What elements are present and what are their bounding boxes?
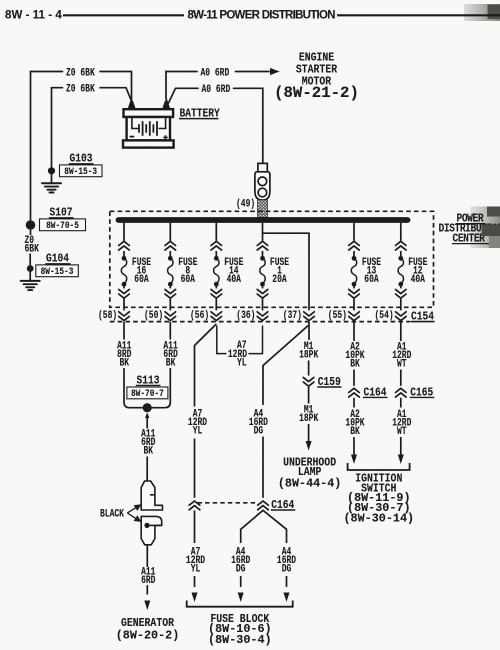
wire A7 to fuse block [194, 510, 196, 543]
wire [308, 361, 310, 376]
arrow into splice from below [145, 412, 149, 418]
svg-text:(8W-20-2): (8W-20-2) [116, 628, 180, 642]
wire [400, 398, 402, 408]
wire label A7 12RD YL [186, 545, 205, 575]
bracket ignition switch [348, 463, 410, 470]
wire to generator [146, 545, 148, 567]
wire A4 split into two branches [241, 510, 287, 543]
fuse F16 60A column [119, 223, 152, 321]
junction chevrons cavity 37 [304, 312, 315, 321]
wire A11 8RD BK from cavity 58 [123, 322, 125, 340]
wire [353, 370, 355, 386]
battery negative post [128, 101, 136, 109]
svg-text:DG: DG [236, 563, 246, 576]
svg-text:DG: DG [254, 424, 264, 437]
wire from cavity 56 diagonal [195, 324, 217, 407]
connector C165 chevrons [396, 388, 407, 397]
wire Z0 6BK lower: battery negative to G103 drop [52, 88, 63, 167]
svg-text:(36): (36) [236, 309, 255, 322]
wire label A11 6RD [141, 565, 156, 586]
wire A0 6RD lower: battery positive to PDC feed [169, 88, 199, 103]
wire label A7 12RD YL (shared) [228, 339, 247, 369]
wire A4 16RD DG diagonal from cavity 37 [263, 326, 308, 406]
splice S113 [127, 375, 168, 413]
wire [308, 387, 310, 404]
svg-text:8W-70-5: 8W-70-5 [46, 219, 79, 231]
shared label leader right from cavity 36 [249, 326, 263, 354]
svg-text:(8W-30-14): (8W-30-14) [343, 511, 414, 525]
arrowhead A7 [192, 593, 198, 603]
node ENGINE STARTER MOTOR [274, 52, 359, 102]
wire label M1 18PK [299, 340, 318, 361]
terminal dot in connector [144, 523, 149, 528]
wire A11 6RD BK from cavity 50 [169, 322, 171, 340]
connector C154 lower dashed line [110, 321, 410, 323]
svg-text:(49): (49) [236, 197, 255, 210]
crimp shell at (49) [258, 200, 268, 218]
wire into splice S113 right [152, 368, 171, 408]
wire [262, 437, 264, 498]
label BLACK with arrows [100, 504, 141, 522]
svg-text:BK: BK [143, 444, 153, 457]
svg-text:(8W-44-4): (8W-44-4) [278, 477, 342, 491]
fuse F13 60A column [349, 223, 382, 321]
svg-text:BK: BK [166, 356, 176, 369]
svg-text:(37): (37) [283, 309, 302, 322]
fuse F14 40A column [211, 223, 244, 321]
svg-text:8W-70-7: 8W-70-7 [131, 387, 164, 399]
svg-text:40A: 40A [411, 273, 426, 286]
fuse F1 20A column [257, 223, 289, 321]
arrowhead A4 right [284, 593, 290, 603]
svg-text:(8W-21-2): (8W-21-2) [274, 84, 359, 102]
svg-text:(55): (55) [328, 309, 347, 322]
svg-text:6BK: 6BK [25, 242, 40, 255]
splice S107 [26, 207, 86, 231]
node GENERATOR [116, 617, 180, 642]
wire with arrow [353, 437, 355, 455]
svg-text:Z0 6BK: Z0 6BK [66, 66, 95, 79]
svg-text:BK: BK [120, 356, 130, 369]
arrowhead to generator [144, 601, 150, 611]
wire with arrow [400, 437, 402, 455]
wire A2 10PK BK from cavity 55 [353, 322, 355, 341]
wire label A11 6RD BK [163, 339, 178, 369]
svg-text:18PK: 18PK [299, 348, 318, 361]
wire label A4 16RD DG right [277, 545, 296, 575]
wire S113 to generator connector [146, 417, 148, 429]
shared label leader left from cavity 56 [217, 326, 227, 354]
svg-text:8W-15-3: 8W-15-3 [41, 265, 74, 277]
wire label A2 10PK BK [345, 340, 364, 370]
node POWER DISTRIBUTION CENTER [439, 213, 500, 246]
svg-text:WT: WT [397, 357, 407, 370]
svg-text:(8W-30-4): (8W-30-4) [208, 633, 272, 647]
svg-text:60A: 60A [364, 273, 379, 286]
battery positive post [162, 101, 170, 109]
wire into splice S113 left [124, 368, 143, 408]
svg-text:60A: 60A [181, 273, 196, 286]
wire [100, 72, 132, 104]
svg-text:20A: 20A [272, 273, 287, 286]
svg-text:(54): (54) [374, 309, 393, 322]
connector (generator) male half [141, 516, 162, 544]
svg-text:YL: YL [191, 563, 201, 576]
wire label A1 12RD WT [392, 340, 411, 370]
connector (generator) female half [141, 481, 162, 510]
svg-text:(58): (58) [98, 309, 117, 322]
wire M1 18PK from cavity 37 [308, 322, 310, 340]
page number 8W-11-4 [5, 10, 62, 22]
wire [353, 398, 355, 408]
connector C164 chevrons [349, 388, 360, 397]
svg-text:(56): (56) [190, 309, 209, 322]
wire label A2 10PK BK [345, 408, 364, 438]
power distribution center dashed box [110, 211, 434, 307]
svg-text:BLACK: BLACK [100, 507, 124, 520]
wire label M1 18PK [299, 403, 318, 424]
svg-text:YL: YL [237, 356, 247, 369]
wire [100, 88, 133, 104]
wire label A4 16RD DG [249, 407, 268, 437]
svg-text:WT: WT [397, 425, 407, 438]
svg-text:8W-11 POWER DISTRIBUTION: 8W-11 POWER DISTRIBUTION [188, 10, 336, 22]
wire jumper from fuse F1 feed to cavity 37 [263, 233, 310, 310]
wire label A4 16RD DG left [231, 545, 250, 575]
header rule right [337, 14, 500, 16]
svg-text:60A: 60A [134, 273, 149, 286]
page edge tab top right [464, 4, 500, 21]
connector C164 dashed line [198, 502, 259, 504]
svg-text:BK: BK [350, 357, 360, 370]
wire label A11 6RD BK [141, 427, 156, 457]
connector chevrons A4 [258, 501, 269, 510]
battery B1 [123, 101, 220, 148]
fuse F8 60A column [165, 223, 198, 321]
wire [400, 370, 402, 386]
ground G104 [21, 253, 79, 290]
svg-text:8W - 11 - 4: 8W - 11 - 4 [5, 10, 62, 22]
PDC tab background [470, 207, 500, 249]
svg-text:40A: 40A [227, 273, 242, 286]
node IGNITION SWITCH [343, 473, 414, 526]
svg-text:DG: DG [282, 563, 292, 576]
node FUSE BLOCK [208, 613, 272, 647]
svg-text:BK: BK [350, 425, 360, 438]
arrowhead to engine starter motor [270, 68, 280, 75]
wire label A11 8RD BK [117, 339, 132, 369]
connector chevrons A7 [189, 501, 200, 510]
bus bar [119, 217, 408, 223]
wire [234, 88, 263, 163]
wire label A7 12RD YL [188, 407, 207, 437]
wire Z0 6BK upper: battery negative to S107 drop [31, 72, 63, 222]
svg-text:(50): (50) [144, 309, 163, 322]
svg-text:A0 6RD: A0 6RD [202, 83, 231, 96]
wire with arrow to underhood lamp [308, 424, 310, 442]
fuse F12 40A column [396, 223, 428, 321]
bracket fuse block [187, 601, 293, 607]
wire A0 6RD upper: battery positive to starter feed [166, 72, 197, 104]
wires to fuse block [240, 576, 242, 587]
svg-text:6RD: 6RD [141, 574, 156, 587]
svg-text:Z0 6BK: Z0 6BK [66, 82, 95, 95]
battery cell symbol [130, 117, 168, 140]
eyelet terminal 49 [255, 163, 270, 200]
wire with arrow to engine starter motor [236, 71, 270, 73]
svg-text:18PK: 18PK [299, 412, 318, 425]
node UNDERHOOD LAMP [278, 457, 342, 491]
page edge dark blocks over tab [487, 207, 500, 217]
header rule left [63, 14, 184, 16]
ground G103 [42, 153, 102, 192]
wire A1 12RD WT from cavity 54 [400, 322, 402, 341]
wire S107 to G104 [30, 230, 32, 235]
connector C159 [303, 377, 314, 386]
svg-text:YL: YL [193, 424, 203, 437]
arrowhead A4 left [238, 593, 244, 603]
svg-text:8W-15-3: 8W-15-3 [64, 165, 97, 177]
wire label A1 12RD WT [392, 408, 411, 438]
svg-text:A0 6RD: A0 6RD [200, 66, 229, 79]
